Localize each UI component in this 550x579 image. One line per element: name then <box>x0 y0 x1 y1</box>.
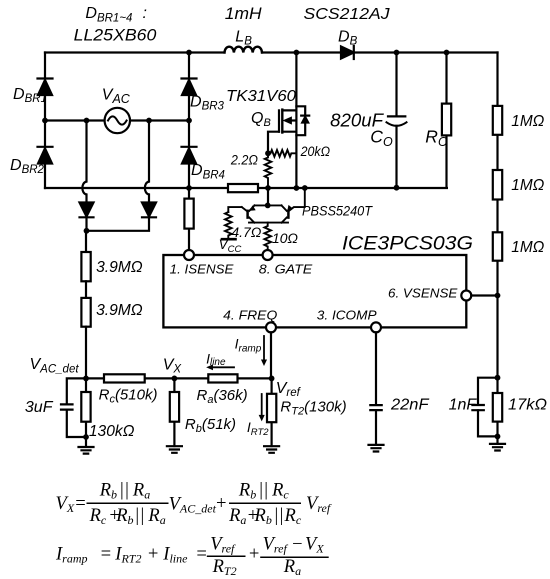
resistor Rc box <box>104 374 145 382</box>
svg-text:4. FREQ: 4. FREQ <box>223 308 277 323</box>
diode Ddet2 <box>142 203 156 218</box>
wire FREQ down <box>270 332 272 378</box>
diode DBR4 <box>182 147 197 164</box>
wire to VAC_det <box>85 327 87 379</box>
svg-text:3uF: 3uF <box>25 399 54 416</box>
wire DBR3 column <box>188 53 190 189</box>
svg-text:1MΩ: 1MΩ <box>511 239 544 256</box>
svg-text:1MΩ: 1MΩ <box>511 177 544 194</box>
resistor RT2 box <box>267 378 276 446</box>
capacitor 3uF <box>61 378 86 437</box>
resistor 3.9M #1 <box>81 252 90 281</box>
svg-text:Rb(51k): Rb(51k) <box>185 416 236 435</box>
svg-text:ICE3PCS03G: ICE3PCS03G <box>342 233 473 255</box>
resistor 1M #1 <box>493 106 502 135</box>
ground 22nF <box>369 445 384 452</box>
pin 1 ISENSE <box>184 250 194 260</box>
svg-text:RT2(130k): RT2(130k) <box>280 398 346 417</box>
wire right column <box>496 53 498 378</box>
svg-text:3. ICOMP: 3. ICOMP <box>317 308 377 323</box>
svg-text:Rb||Ra: Rb||Ra <box>99 481 151 502</box>
pin 8 GATE <box>263 250 273 260</box>
body diode of QB <box>296 106 309 135</box>
diode DB <box>341 46 354 59</box>
svg-text:Ra(36k): Ra(36k) <box>197 387 248 406</box>
svg-text:+: + <box>248 545 260 565</box>
svg-text:Rb||Rc: Rb||Rc <box>238 481 290 502</box>
wire ICOMP down <box>375 332 377 405</box>
arrow IRT2 <box>261 394 263 416</box>
wire VACdet row <box>86 377 272 379</box>
svg-text:PBSS5240T: PBSS5240T <box>302 203 374 218</box>
resistor 130k box <box>81 378 90 437</box>
resistor 2.2ohm zigzag vertical <box>265 153 272 188</box>
resistor 4.7ohm zigzag <box>225 212 232 239</box>
svg-text:LL25XB60: LL25XB60 <box>74 25 157 44</box>
svg-text:2.2Ω: 2.2Ω <box>230 152 258 167</box>
resistor Rb box <box>170 378 179 446</box>
wire detect join <box>86 217 149 252</box>
wire left column <box>44 53 46 189</box>
svg-text:SCS212AJ: SCS212AJ <box>304 6 391 23</box>
arrow Iline <box>212 366 234 368</box>
svg-text:17kΩ: 17kΩ <box>508 397 547 414</box>
inductor LB <box>225 47 263 53</box>
svg-text:22nF: 22nF <box>390 397 430 414</box>
source VAC <box>105 108 130 133</box>
resistor 2.2ohm box in rail <box>228 184 258 192</box>
ground VACdet <box>79 437 94 454</box>
ground right <box>490 444 505 451</box>
svg-text:Vref−VX: Vref−VX <box>263 535 325 556</box>
arrow Iramp <box>263 336 265 360</box>
wire VSENSE <box>471 294 497 296</box>
pin 3 ICOMP <box>371 322 381 332</box>
equation 2 <box>55 535 329 579</box>
resistor 1M #2 <box>493 170 502 200</box>
diode DBR1 <box>38 79 53 96</box>
capacitor CO <box>387 53 407 188</box>
wire detect left with hop <box>82 121 86 203</box>
wire ISENSE column <box>188 188 190 250</box>
resistor isense box <box>184 199 193 229</box>
svg-text:4.7Ω: 4.7Ω <box>231 225 261 240</box>
pin 6 VSENSE <box>461 291 471 301</box>
diode DBR3 <box>182 79 197 96</box>
svg-text:6. VSENSE: 6. VSENSE <box>388 286 458 301</box>
wire detect right with hop <box>145 121 149 203</box>
svg-text:Rc+Rb||Ra: Rc+Rb||Ra <box>89 506 166 527</box>
transistor pair PBSS5240T <box>228 188 304 223</box>
svg-text:TK31V60: TK31V60 <box>226 88 296 105</box>
resistor 1M #3 <box>493 232 502 260</box>
svg-text:1MΩ: 1MΩ <box>511 113 544 130</box>
wire to driver center <box>267 188 269 205</box>
svg-text:+: + <box>215 494 227 514</box>
capacitor 1nF and resistor 17k network <box>472 378 502 444</box>
svg-text:130kΩ: 130kΩ <box>89 423 135 440</box>
svg-text:1. ISENSE: 1. ISENSE <box>170 261 234 276</box>
capacitor 22nF <box>370 405 381 445</box>
svg-text:Rc(510k): Rc(510k) <box>99 387 158 406</box>
pin 4 FREQ <box>266 322 276 332</box>
svg-text:10Ω: 10Ω <box>272 231 298 246</box>
wire AC mid <box>45 119 189 121</box>
svg-text:1nF: 1nF <box>449 397 478 414</box>
resistor Ra box <box>208 374 237 382</box>
resistor 20k zigzag <box>268 150 296 157</box>
svg-text:3.9MΩ: 3.9MΩ <box>96 259 143 276</box>
resistor RO <box>442 53 451 188</box>
svg-text:3.9MΩ: 3.9MΩ <box>96 302 143 319</box>
IC box ICE3PCS03G <box>163 255 466 327</box>
equation 1 <box>56 481 332 527</box>
ground Rb <box>167 446 182 453</box>
wire <box>85 281 87 298</box>
diode Ddet1 <box>80 203 94 218</box>
svg-text:Ra+Rb||Rc: Ra+Rb||Rc <box>228 506 302 527</box>
svg-text:8. GATE: 8. GATE <box>259 261 313 276</box>
svg-text:1mH: 1mH <box>225 4 263 23</box>
wire top rail <box>45 51 498 53</box>
ground RT2 <box>264 446 279 453</box>
wire bottom rail <box>45 187 447 189</box>
diode DBR2 <box>38 147 53 164</box>
svg-text:20kΩ: 20kΩ <box>300 143 331 159</box>
resistor 3.9M #2 <box>81 298 90 327</box>
Vcc terminal <box>222 238 236 241</box>
transistor QB mosfet <box>268 53 296 189</box>
resistor 10ohm zigzag <box>264 223 271 251</box>
